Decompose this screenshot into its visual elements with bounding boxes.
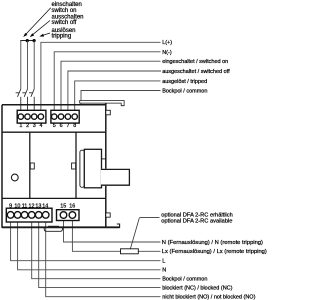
terminal 1 bbox=[18, 114, 23, 119]
svg-text:ausgelöst / tripped: ausgelöst / tripped bbox=[162, 79, 207, 85]
wire terminal 3 upper bbox=[33, 41, 35, 90]
svg-text:6: 6 bbox=[60, 123, 63, 129]
svg-text:16: 16 bbox=[69, 203, 75, 209]
handle grip outer strip bbox=[80, 150, 84, 187]
svg-text:N (Fernauslösung) / N (remote: N (Fernauslösung) / N (remote tripping) bbox=[162, 240, 263, 246]
bottom edge bbox=[2, 226, 120, 228]
svg-text:ausgeschaltet / switched off: ausgeschaltet / switched off bbox=[162, 69, 230, 75]
tab on left divider bbox=[30, 163, 34, 169]
tab bottom right bbox=[106, 213, 110, 217]
bottom edge hook bbox=[117, 224, 120, 228]
terminal 12 bbox=[28, 212, 35, 219]
node dot auslösen bbox=[33, 39, 36, 42]
handle step line bbox=[102, 158, 106, 160]
arrow einschalten bbox=[23, 8, 51, 37]
terminal 8 bbox=[72, 114, 77, 119]
terminal 10 bbox=[14, 212, 21, 219]
top edge bbox=[2, 104, 106, 106]
svg-text:N(-): N(-) bbox=[162, 50, 172, 56]
right edge upper bbox=[105, 103, 107, 169]
svg-text:1: 1 bbox=[19, 123, 22, 129]
svg-text:optional DFA 2-RC available: optional DFA 2-RC available bbox=[161, 219, 232, 225]
wire terminal 6 to eingeschaltet bbox=[61, 61, 161, 114]
svg-text:nicht blockiert (NO) / not blo: nicht blockiert (NO) / not blocked (NO) bbox=[162, 295, 255, 300]
pin numbers 5-8 bbox=[53, 123, 77, 129]
screw circle left compartment bbox=[11, 174, 18, 181]
internal divider horizontal upper bbox=[2, 131, 106, 133]
device housing outline bbox=[2, 103, 120, 228]
terminal 13 bbox=[35, 212, 42, 219]
handle grip body bbox=[84, 149, 101, 188]
DIN rail clip bottom bbox=[44, 228, 62, 231]
svg-text:switch off: switch off bbox=[52, 20, 77, 26]
pin numbers 1-4 bbox=[19, 123, 42, 129]
svg-text:Bockpol / common: Bockpol / common bbox=[162, 88, 207, 94]
svg-text:Lx (Fernauslösung) / Lx (remot: Lx (Fernauslösung) / Lx (remote tripping… bbox=[162, 249, 267, 255]
svg-text:11: 11 bbox=[22, 203, 28, 209]
resistor DFA 2-RC bbox=[121, 249, 139, 254]
node dot ausschalten bbox=[26, 39, 29, 42]
terminal 16 bbox=[69, 212, 76, 219]
terminal block 9-14 bbox=[6, 208, 52, 222]
wire terminal 15 to N remote bbox=[64, 218, 161, 242]
svg-text:switch on: switch on bbox=[52, 8, 77, 14]
svg-text:7: 7 bbox=[67, 123, 70, 129]
svg-text:13: 13 bbox=[35, 203, 41, 209]
terminal 2 bbox=[25, 114, 30, 119]
svg-text:L(+): L(+) bbox=[162, 40, 172, 46]
svg-text:2: 2 bbox=[26, 123, 29, 129]
svg-text:blockiert (NC) / blocked (NC): blockiert (NC) / blocked (NC) bbox=[162, 286, 232, 292]
wire resistor to Lx label bbox=[138, 250, 160, 252]
handle arm bbox=[101, 169, 130, 186]
svg-text:14: 14 bbox=[42, 203, 48, 209]
terminal 9 bbox=[7, 212, 14, 219]
wire Bockpol/common top bbox=[81, 91, 161, 105]
terminal 15 bbox=[60, 212, 67, 219]
wire terminal 1 upper bbox=[20, 41, 22, 90]
svg-text:9: 9 bbox=[9, 203, 12, 209]
wire terminal 7 to ausgeschaltet bbox=[68, 71, 161, 114]
svg-text:3: 3 bbox=[33, 123, 36, 129]
svg-text:10: 10 bbox=[14, 203, 20, 209]
arrow ausschalten bbox=[30, 21, 50, 38]
wire terminal 16 to Lx remote bbox=[72, 218, 120, 251]
right edge lower bbox=[105, 185, 107, 227]
terminal block 5-8 bbox=[51, 110, 79, 123]
top flange bbox=[80, 101, 124, 106]
internal divider vertical left bbox=[29, 132, 31, 198]
DIN rail clip dark bar bbox=[48, 226, 59, 228]
wire terminal 8 to ausgelöst bbox=[75, 81, 161, 114]
terminal 14 bbox=[42, 212, 49, 219]
internal divider horizontal lower bbox=[2, 197, 106, 199]
terminal 7 bbox=[65, 114, 70, 119]
switch S3 (auslösen contact) bbox=[29, 89, 34, 114]
svg-text:eingeschaltet / switched on: eingeschaltet / switched on bbox=[162, 59, 228, 65]
terminal block 1-4 bbox=[17, 110, 46, 123]
wire terminal 14 to nicht blockiert bbox=[46, 218, 161, 297]
wire terminal 12 to Bockpol bbox=[32, 218, 161, 279]
svg-text:Bockpol / common: Bockpol / common bbox=[162, 277, 207, 283]
terminal 3 bbox=[32, 114, 37, 119]
tab top right bbox=[106, 110, 111, 115]
internal divider vertical right bbox=[75, 132, 77, 198]
wire terminal 13 to blockiert bbox=[39, 218, 161, 288]
svg-text:15: 15 bbox=[60, 203, 66, 209]
switch S2 (ausschalten contact) bbox=[22, 89, 27, 114]
svg-text:12: 12 bbox=[29, 203, 35, 209]
wire bus top-left (einschalten/ausschalten/auslösen common) bbox=[21, 40, 35, 43]
wire terminal 5 to N(-) bbox=[54, 52, 160, 114]
arrow auslösen bbox=[39, 33, 50, 37]
terminal 4 bbox=[38, 114, 43, 119]
svg-text:8: 8 bbox=[73, 123, 76, 129]
terminal 11 bbox=[21, 212, 28, 219]
svg-text:L: L bbox=[162, 259, 165, 265]
svg-text:tripping: tripping bbox=[52, 34, 72, 40]
terminal 5 bbox=[52, 114, 57, 119]
svg-text:N: N bbox=[162, 268, 166, 274]
leader line to resistor bbox=[130, 217, 160, 250]
wire terminal 2 upper bbox=[27, 41, 29, 90]
svg-text:5: 5 bbox=[53, 123, 56, 129]
pin numbers 9-14 bbox=[9, 203, 48, 209]
terminal block 15-16 bbox=[57, 210, 80, 221]
wire terminal 10 to N bbox=[18, 218, 161, 270]
tab on right divider bbox=[72, 163, 76, 169]
terminal 6 bbox=[58, 114, 63, 119]
switch S1 (einschalten contact) bbox=[16, 89, 21, 114]
wire terminal 4 to L(+) bbox=[41, 42, 161, 114]
pin numbers 15-16 bbox=[60, 203, 75, 209]
left edge bbox=[1, 105, 3, 228]
wire terminal 9 to L bbox=[11, 218, 161, 261]
svg-text:4: 4 bbox=[40, 123, 43, 129]
